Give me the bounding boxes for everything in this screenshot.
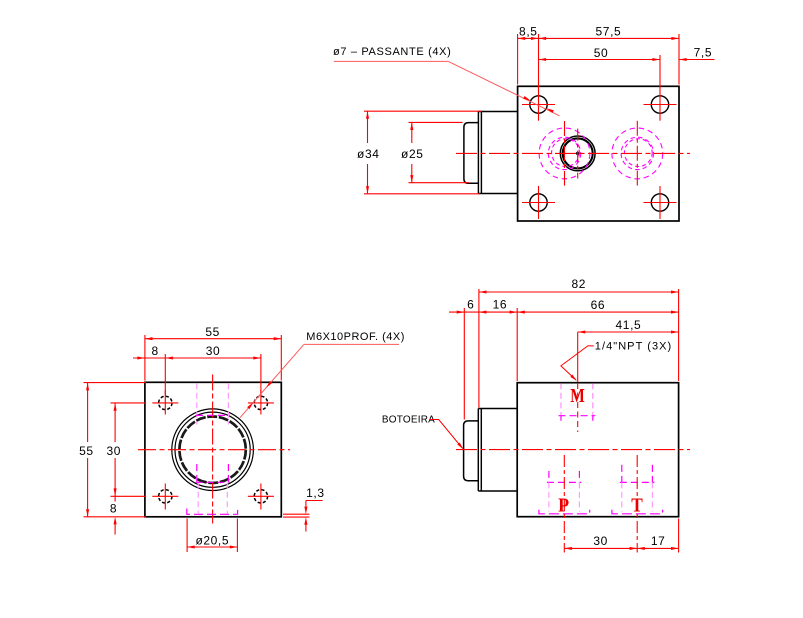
svg-text:57,5: 57,5 [596, 25, 622, 39]
M port center dot [576, 152, 579, 155]
M6 hole top-right [254, 396, 267, 409]
T port centerline [636, 455, 638, 553]
corner hole top-right [651, 96, 668, 113]
front view horizontal centerline [138, 449, 290, 451]
boss side profile o34 section [478, 112, 517, 194]
plate outline front view [145, 382, 281, 517]
hole crosshairs top view [522, 105, 677, 220]
dimension 82 [479, 289, 679, 408]
svg-text:ø34: ø34 [357, 147, 379, 161]
corner hole bottom-left [530, 194, 547, 211]
P port vertical centerline [564, 121, 566, 186]
dimension 41,5 [578, 331, 679, 333]
svg-text:30: 30 [593, 534, 608, 548]
P port hidden circles (magenta) [539, 128, 590, 179]
svg-text:ø7 – PASSANTE (4X): ø7 – PASSANTE (4X) [333, 46, 451, 58]
side view horizontal centerline [456, 449, 690, 451]
svg-text:1,3: 1,3 [306, 486, 324, 500]
front view vertical centerline [212, 375, 214, 524]
dimension o20,5 [187, 519, 237, 553]
svg-text:17: 17 [651, 534, 666, 548]
center bore thread ring [179, 417, 245, 483]
dimension 55 top [145, 335, 281, 381]
svg-text:16: 16 [493, 298, 508, 312]
P port hidden lines [539, 471, 590, 514]
dimension 6 / 16 [449, 308, 679, 420]
svg-text:ø25: ø25 [401, 147, 423, 161]
svg-text:BOTOEIRA: BOTOEIRA [382, 415, 435, 426]
M port tapped hole (black ring) [560, 136, 595, 171]
horizontal centerline top view [456, 152, 690, 154]
dimension 50 line [539, 55, 661, 121]
M6 hole bottom-right [254, 490, 267, 503]
dimension o34 [364, 111, 482, 194]
body outline side view [517, 383, 678, 517]
M port centerline [577, 383, 579, 432]
corner hole top-left [530, 96, 547, 113]
M6 hole crosshairs [152, 390, 274, 510]
bore hidden lines upper (magenta pale) [197, 383, 229, 513]
P port centerline [563, 455, 565, 553]
svg-text:50: 50 [594, 46, 609, 60]
svg-text:66: 66 [591, 298, 606, 312]
T port hidden circles (magenta) [612, 128, 663, 179]
dimension 8 / 30 top [133, 354, 261, 395]
dimension 30 / 17 bottom [564, 519, 678, 553]
svg-text:82: 82 [572, 277, 587, 291]
M port vertical centerline [577, 129, 579, 179]
svg-text:8,5: 8,5 [519, 25, 537, 39]
M6 hole top-left [159, 396, 172, 409]
svg-text:ø20,5: ø20,5 [195, 534, 229, 548]
svg-text:30: 30 [206, 344, 221, 358]
dimension o25 [409, 122, 470, 182]
T port hidden lines [612, 465, 663, 514]
svg-text:6: 6 [467, 298, 474, 312]
botoeira flange o34 [478, 409, 517, 492]
plate outline top view [518, 86, 679, 221]
dimension 8 left bottom [114, 496, 116, 534]
svg-text:41,5: 41,5 [616, 318, 642, 332]
svg-text:1/4"NPT (3X): 1/4"NPT (3X) [595, 341, 672, 353]
dimension 7,5 [679, 59, 715, 61]
svg-text:30: 30 [107, 444, 122, 458]
dimension 1,3 [283, 501, 323, 532]
center bore circle o31 [175, 412, 250, 487]
svg-text:T: T [631, 494, 643, 516]
dimension 55 left [84, 383, 147, 517]
dimension 30 left [111, 403, 146, 496]
center bore circle o34 [172, 409, 254, 491]
botoeira button o25 [464, 421, 479, 481]
svg-text:M: M [570, 385, 585, 407]
svg-text:P: P [558, 494, 569, 516]
svg-text:8: 8 [110, 502, 117, 516]
svg-text:M6X10PROF. (4X): M6X10PROF. (4X) [306, 331, 405, 343]
T port vertical centerline [636, 121, 638, 186]
svg-text:7,5: 7,5 [694, 46, 712, 60]
svg-text:55: 55 [79, 444, 94, 458]
M6 hole bottom-left [159, 490, 172, 503]
dimension 8,5 and 57,5 line [518, 34, 679, 121]
corner hole bottom-right [651, 194, 668, 211]
bore step lines (bright magenta) [187, 415, 238, 514]
svg-text:55: 55 [205, 325, 220, 339]
M port hidden lines [559, 383, 596, 423]
svg-text:8: 8 [152, 344, 159, 358]
boss side profile o25 tip [464, 123, 479, 184]
